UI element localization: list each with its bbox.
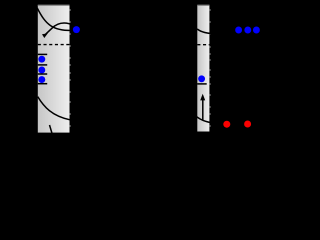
arrowhead of S2 xyxy=(42,33,48,38)
right bar right-edge ticks xyxy=(209,10,210,126)
trap level line 2 xyxy=(38,64,47,66)
external electron (left panel) xyxy=(73,26,80,33)
curve S4: hole capture trajectory to red holes xyxy=(192,113,227,125)
trap electron 1 xyxy=(38,56,45,63)
curve S1: trajectory from bar top-left to external electron xyxy=(37,8,76,30)
free electron 2 (top right) xyxy=(244,27,251,34)
upward arrowhead xyxy=(200,94,205,101)
trap electron 3 xyxy=(38,76,45,83)
right nanowire bar xyxy=(197,5,209,132)
hole 1 (red) xyxy=(223,121,230,128)
left bar top border xyxy=(38,4,70,6)
upward arrow shaft (right bar) xyxy=(202,99,204,120)
trap level line 1 xyxy=(38,53,47,55)
trap level line (right bar) xyxy=(197,83,207,85)
free electron 3 (top right) xyxy=(253,27,260,34)
curve S5: lower trajectory in left bar xyxy=(38,97,70,120)
left bar right-edge ticks xyxy=(70,10,71,126)
trap level line 3 xyxy=(38,73,47,75)
right bar top border xyxy=(197,4,209,6)
right dashed Fermi level xyxy=(197,44,209,46)
curved arrow S2: capture arc from external electron into bar, arrowhead down-left xyxy=(46,23,75,34)
stroke S6: short arrow tail exiting bar bottom xyxy=(50,125,52,133)
left nanowire bar xyxy=(38,5,70,133)
electron on trap level (right bar) xyxy=(198,75,205,82)
free electron 1 (top right) xyxy=(235,27,242,34)
left dashed Fermi level xyxy=(38,44,70,46)
curve S3: ejection trajectory at top of right bar toward free electrons xyxy=(197,29,232,34)
hole 2 (red) xyxy=(244,121,251,128)
trap electron 2 xyxy=(38,67,45,74)
trap level line 4 xyxy=(38,83,47,85)
